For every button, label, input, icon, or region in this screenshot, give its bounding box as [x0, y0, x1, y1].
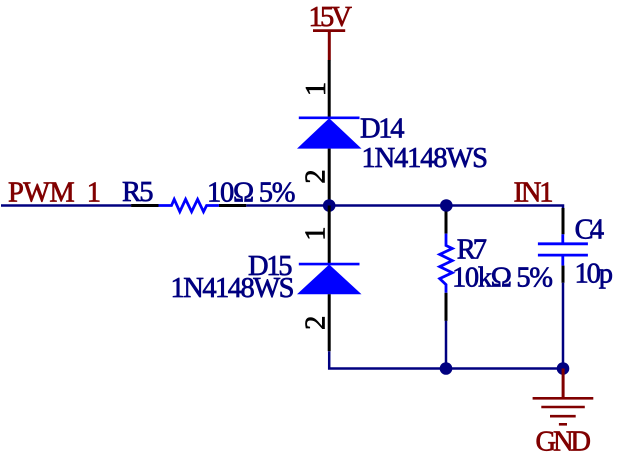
- wire R7 to node C: [445, 321, 448, 369]
- svg-text:R5: R5: [122, 177, 154, 208]
- diode D15: [297, 264, 362, 294]
- junction node A: [323, 199, 336, 212]
- diode D14 pin 1 wire segment: [328, 60, 331, 118]
- svg-text:2: 2: [301, 316, 332, 330]
- power symbol 15V bar: [313, 31, 345, 61]
- junction node C: [440, 362, 453, 375]
- svg-text:IN1: IN1: [514, 177, 554, 208]
- resistor R7 pin 1: [445, 212, 448, 234]
- svg-text:10kΩ 5%: 10kΩ 5%: [452, 262, 553, 293]
- svg-text:R7: R7: [457, 235, 487, 266]
- capacitor C4 pin 2: [562, 266, 565, 283]
- wire node A to node B: [329, 204, 446, 207]
- wire PWM_1 left segment: [1, 204, 131, 207]
- svg-text:D14: D14: [360, 114, 405, 145]
- svg-text:1: 1: [301, 82, 332, 96]
- resistor R7 body: [440, 234, 453, 293]
- resistor R5 pin 1: [131, 204, 158, 207]
- wire R5 to node A: [246, 204, 329, 207]
- resistor R5 body: [159, 199, 219, 211]
- resistor R7 pin 2: [445, 293, 448, 321]
- capacitor C4 body: [538, 234, 588, 265]
- svg-text:15V: 15V: [309, 2, 353, 33]
- wire node B to C4 corner: [446, 206, 563, 209]
- diode D14 pin 2 wire segment: [328, 149, 331, 206]
- ground symbol GND: [533, 369, 594, 425]
- wire C4 to node D: [562, 283, 565, 369]
- svg-text:10Ω 5%: 10Ω 5%: [207, 178, 296, 209]
- junction node B: [440, 199, 453, 212]
- svg-text:10p: 10p: [575, 259, 614, 290]
- diode D14: [297, 118, 362, 149]
- svg-text:1N4148WS: 1N4148WS: [362, 143, 489, 174]
- svg-text:1: 1: [301, 226, 332, 240]
- diode D15 pin 2 wire segment: [328, 294, 331, 351]
- svg-text:1N4148WS: 1N4148WS: [171, 273, 295, 304]
- svg-text:GND: GND: [536, 427, 592, 458]
- svg-text:C4: C4: [575, 215, 605, 246]
- wire D15 to bottom rail: [329, 351, 446, 368]
- capacitor C4 pin 1: [562, 208, 565, 234]
- diode D15 pin 1 wire segment: [328, 206, 331, 265]
- junction node D: [557, 362, 570, 375]
- wire node C to node D (bottom rail): [446, 367, 563, 370]
- resistor R5 pin 2: [219, 204, 246, 207]
- svg-text:2: 2: [301, 169, 332, 183]
- svg-text:PWM 1: PWM 1: [8, 177, 101, 208]
